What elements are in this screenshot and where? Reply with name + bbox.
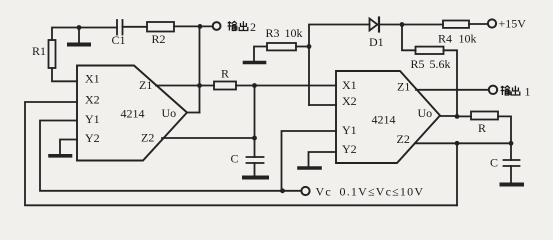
resistor R (left): [214, 82, 236, 90]
wire vertical R3 node up and to D1: [309, 25, 370, 106]
capacitor C1: [117, 20, 123, 35]
wire Z1 of U1: [156, 85, 214, 87]
svg-text:Z1: Z1: [139, 78, 152, 92]
wire R3 to node: [296, 46, 309, 48]
resistor R3 10k: [267, 43, 296, 50]
node junction R right: [252, 83, 257, 88]
svg-text:X1: X1: [85, 72, 100, 86]
svg-text:R1: R1: [32, 44, 46, 58]
wire Z2 of U1: [162, 137, 255, 139]
wire R1 bottom to X1 of U1: [52, 68, 77, 81]
terminal output 2: [213, 22, 221, 30]
terminal output 1: [489, 86, 497, 94]
wire Z2 node down to bottom feedback: [456, 143, 458, 205]
svg-text:Z2: Z2: [141, 131, 154, 145]
diode D1: [370, 18, 380, 32]
wire X2 feedback of U1 (long bottom loop): [25, 102, 457, 205]
node junction Z2 of U2: [455, 141, 460, 146]
capacitor C (left): [247, 157, 264, 176]
svg-text:Vc: Vc: [316, 185, 332, 199]
wire R5 to output node vertical: [444, 50, 458, 116]
wire R right down to Z2 line: [498, 116, 511, 143]
wire Y2 of U1 to ground: [60, 140, 77, 155]
svg-text:D1: D1: [369, 35, 384, 49]
resistor R5 5.6k: [416, 47, 444, 54]
wire R to X1 of U2: [236, 85, 336, 87]
svg-text:Y2: Y2: [85, 131, 100, 145]
wire vertical from output-2 node down to Uo stub: [199, 26, 201, 112]
ground for R3: [245, 47, 268, 63]
wire D1 to R4: [379, 24, 443, 26]
wire R4 to +15V terminal: [469, 23, 488, 25]
wire Z2 of U2: [415, 142, 511, 144]
node junction Z1/Uo: [197, 83, 202, 88]
label output 1 (hand-drawn CJK "chu"): [511, 86, 520, 95]
resistor R4 10k: [443, 21, 469, 28]
wire R2 to output-2 terminal: [174, 25, 213, 27]
node junction Vc: [280, 188, 285, 193]
terminal Vc: [301, 187, 309, 195]
svg-text:Z1: Z1: [397, 80, 410, 94]
terminal +15V: [488, 19, 496, 27]
svg-text:C: C: [231, 152, 239, 166]
svg-text:4214: 4214: [372, 113, 396, 127]
wire X2 of U2: [309, 104, 336, 106]
svg-text:X1: X1: [342, 78, 357, 92]
wire Z1 of U2 to output 1: [416, 89, 489, 91]
svg-text:R3: R3: [266, 26, 280, 40]
wire Y1 of U2 down to Vc node: [282, 131, 337, 191]
wire top-left horizontal (R1 top to C1): [52, 28, 117, 41]
node junction at output 2: [198, 24, 203, 29]
svg-text:Y1: Y1: [85, 112, 100, 126]
wire node down to R5: [402, 25, 416, 51]
svg-text:R5: R5: [411, 57, 425, 71]
svg-text:Uo: Uo: [418, 106, 433, 120]
svg-text:R2: R2: [152, 32, 166, 46]
label output 2 (hand-drawn CJK "chu"): [239, 21, 248, 30]
svg-text:C1: C1: [112, 33, 126, 47]
op-amp block U2 (4214 multiplier, pentagon): [336, 71, 440, 163]
svg-text:R: R: [478, 121, 486, 135]
svg-text:R4: R4: [438, 32, 452, 46]
svg-text:X2: X2: [342, 94, 357, 108]
capacitor C (right): [504, 143, 520, 182]
svg-text:R: R: [221, 67, 229, 81]
op-amp block U1 (4214 multiplier, pentagon): [77, 66, 187, 161]
resistor R (right): [471, 112, 498, 120]
svg-text:10k: 10k: [285, 26, 303, 40]
label output 2 (hand-drawn CJK "shu"): [228, 21, 248, 30]
svg-text:10k: 10k: [459, 32, 477, 46]
ground below left C: [244, 176, 267, 180]
resistor R2: [147, 22, 174, 32]
svg-text:Uo: Uo: [162, 106, 177, 120]
node junction Z2/C: [252, 136, 257, 141]
node junction D1/R5: [400, 22, 405, 27]
ground below right C: [502, 183, 523, 187]
wire Y2 of U2 to ground: [309, 152, 337, 166]
node junction top-left: [77, 25, 82, 30]
svg-text:C: C: [490, 156, 498, 170]
ground below Y2 of U1: [50, 154, 71, 158]
wire C1 to R2: [123, 26, 148, 28]
ground below Y2 of U2: [299, 166, 320, 170]
node junction R3/X2: [307, 44, 312, 49]
wire Uo node to R (right): [457, 115, 471, 117]
ground below top-left node: [69, 28, 89, 45]
resistor R1: [49, 40, 56, 68]
svg-text:2: 2: [250, 20, 256, 34]
svg-text:5.6k: 5.6k: [430, 57, 451, 71]
wire Uo stub of U2: [440, 115, 457, 117]
node junction Uo of U2: [455, 114, 460, 119]
svg-text:+15V: +15V: [499, 17, 527, 31]
wire Y1 feedback of U1 to Vc node: [40, 121, 301, 191]
svg-text:Z2: Z2: [397, 132, 410, 146]
wire Uo stub of U1: [187, 112, 200, 114]
wire vertical R/C node: [254, 86, 256, 158]
label output 1 (hand-drawn CJK "shu"): [501, 86, 520, 95]
svg-text:0.1V≤Vc≤10V: 0.1V≤Vc≤10V: [340, 185, 425, 199]
svg-text:Y2: Y2: [342, 142, 357, 156]
svg-text:Y1: Y1: [342, 123, 357, 137]
svg-text:4214: 4214: [121, 107, 145, 121]
svg-text:1: 1: [525, 84, 531, 98]
svg-text:X2: X2: [85, 93, 100, 107]
node junction Z2/C right: [509, 141, 514, 146]
